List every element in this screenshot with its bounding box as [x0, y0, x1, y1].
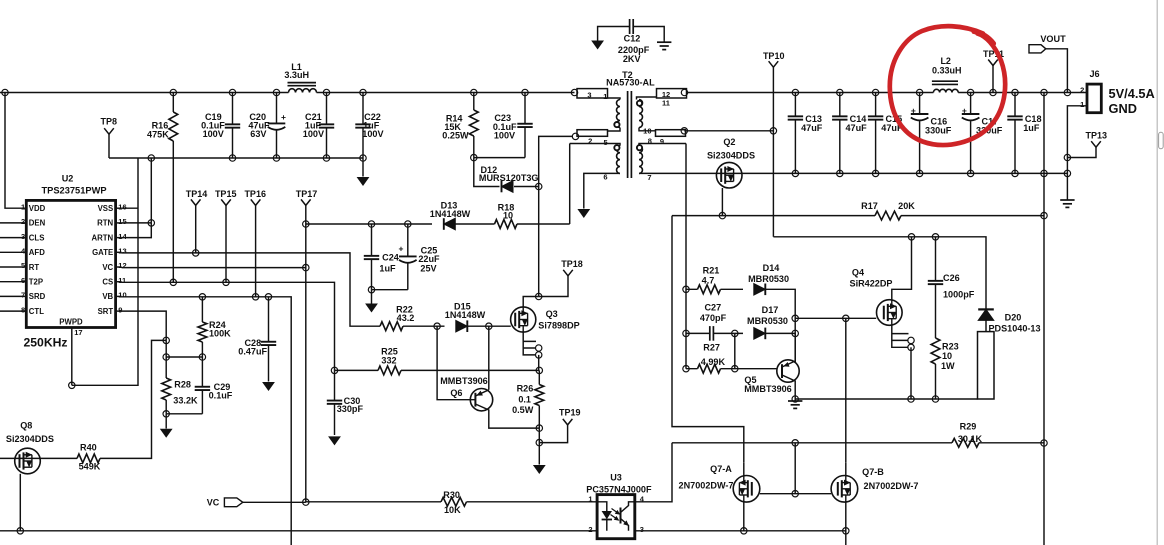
wire TP18 branch: [539, 276, 568, 297]
svg-text:R17: R17: [861, 201, 878, 211]
resistor R21 4.7: [698, 285, 721, 294]
wire top input rail: [0, 92, 575, 94]
wire Q4 source bracket: [892, 325, 909, 347]
node CS / R25 / C30: [331, 367, 337, 373]
wire Q7-B drain: [845, 463, 847, 476]
node PWPD: [69, 382, 75, 388]
wire VSS pin16: [122, 207, 138, 209]
wire Q8 source to bottom rail: [19, 474, 21, 531]
wire R24 bottom tie: [166, 356, 202, 358]
node D15 anode / Q6 base branch: [434, 323, 440, 329]
svg-text:AFD: AFD: [29, 248, 45, 257]
capacitor C17 330uF: [967, 89, 973, 95]
svg-text:R21: R21: [703, 266, 720, 276]
wire R26 to ground: [538, 428, 540, 464]
svg-text:100K: 100K: [209, 328, 231, 338]
ground arrow below C24: [371, 290, 373, 304]
node VB C28: [265, 294, 271, 300]
transformer secondary top winding (12-11): [637, 97, 657, 100]
capacitor C16 330uF: [916, 89, 922, 95]
wire C29 bottom tie: [166, 413, 202, 415]
node Q7-A source rail: [741, 528, 747, 534]
wire snubber bottom row: [795, 398, 977, 400]
svg-text:MMBT3906: MMBT3906: [440, 376, 488, 386]
svg-text:VC: VC: [102, 263, 113, 272]
svg-text:Q8: Q8: [20, 420, 32, 430]
node Q7-B source rail: [843, 528, 849, 534]
svg-text:10: 10: [643, 126, 651, 135]
wire Q5 emitter: [782, 333, 795, 367]
svg-text:11: 11: [118, 276, 126, 285]
svg-text:R26: R26: [517, 383, 534, 393]
node R17 riser top: [1041, 89, 1047, 95]
wire Q2 row right: [716, 172, 795, 174]
node Q5 collector row: [792, 396, 798, 402]
U2 pin 13 GATE: [116, 251, 122, 253]
wire Q7-B drain drop: [845, 318, 847, 463]
wire pin6 to ground: [584, 173, 620, 208]
svg-text:100V: 100V: [362, 129, 383, 139]
wire R25 row: [335, 369, 540, 371]
svg-text:TPS23751PWP: TPS23751PWP: [41, 186, 106, 196]
capacitor C12 2200pF 2KV: [629, 19, 631, 34]
wire Q8 drain to R40: [40, 457, 77, 459]
svg-text:3: 3: [640, 525, 644, 534]
U2 pin 6 T2P: [0, 281, 26, 283]
scrollbar track: [1156, 0, 1158, 545]
wire pin10 row to TP10: [684, 130, 773, 132]
node TP17 on VC bias row: [303, 221, 309, 227]
inductor L1: [288, 82, 317, 84]
scrollbar thumb: [1159, 132, 1164, 148]
resistor R27 4.99K: [698, 364, 721, 373]
svg-text:0.1: 0.1: [518, 394, 531, 404]
svg-text:C27: C27: [704, 303, 721, 313]
U3 phototransistor: [620, 508, 622, 524]
wire C27-R27 tie: [734, 333, 736, 368]
node R24 bottom: [199, 354, 205, 360]
ground arrow below C30: [328, 436, 341, 445]
ground arrow pin6: [577, 209, 590, 218]
transformer primary top winding: [608, 98, 621, 100]
svg-text:1: 1: [21, 202, 25, 211]
wire Q6 base: [437, 326, 475, 400]
U2 pin 5 RT: [0, 266, 26, 268]
svg-text:PDS1040-13: PDS1040-13: [988, 323, 1040, 333]
svg-text:VDD: VDD: [29, 204, 46, 213]
resistor R18 10: [495, 220, 518, 229]
diode D12 MURS120T3G: [502, 181, 514, 193]
wire GATE net: [122, 253, 380, 326]
wire Q7-B source: [845, 502, 847, 545]
svg-text:GND: GND: [1109, 101, 1137, 116]
wire Q2 source: [721, 188, 723, 216]
svg-text:VSS: VSS: [98, 204, 114, 213]
svg-text:0.33uH: 0.33uH: [932, 65, 962, 75]
svg-text:R40: R40: [80, 443, 97, 453]
svg-text:1uF: 1uF: [1023, 123, 1040, 133]
wire Q4 drain: [892, 237, 912, 300]
svg-text:470pF: 470pF: [700, 313, 727, 323]
svg-text:6: 6: [21, 276, 25, 285]
svg-text:NA5730-AL: NA5730-AL: [606, 77, 655, 87]
node snubber rail C26: [932, 234, 938, 240]
svg-text:9: 9: [660, 137, 664, 146]
wire VDD pin1 riser: [5, 93, 26, 209]
resistor R14 15K 0.25W: [473, 93, 475, 111]
capacitor C13 47uF: [792, 89, 798, 95]
node return rail RTN riser: [148, 155, 154, 161]
svg-text:4.7: 4.7: [702, 276, 715, 286]
node TP10 pin10 row: [770, 128, 776, 134]
svg-text:R23: R23: [942, 341, 959, 351]
earth ground output: [1066, 198, 1068, 200]
wire VC bias row: [306, 144, 570, 225]
svg-text:0.1uF: 0.1uF: [209, 390, 233, 400]
transformer aux winding (5-6): [570, 144, 620, 146]
node Q6 emitter on gate row: [486, 323, 492, 329]
U2 pin 8 CTL: [0, 310, 26, 312]
ground arrow C12 left: [591, 41, 604, 50]
node D17 cathode: [792, 330, 798, 336]
svg-text:Q3: Q3: [546, 309, 558, 319]
svg-text:16: 16: [118, 202, 126, 211]
svg-text:MBR0530: MBR0530: [748, 274, 789, 284]
svg-text:1: 1: [603, 92, 607, 101]
svg-text:T2P: T2P: [29, 278, 43, 287]
svg-text:1000pF: 1000pF: [943, 289, 975, 299]
svg-text:33.2K: 33.2K: [173, 396, 198, 406]
svg-text:Q2: Q2: [723, 137, 735, 147]
optocoupler U3 PC357N4J000F body: [597, 495, 635, 539]
svg-text:TP17: TP17: [296, 189, 318, 199]
resistor R17 20K: [875, 211, 901, 220]
wire R14-C23 bottom: [474, 157, 525, 159]
node VB R24: [199, 294, 205, 300]
svg-text:5V/4.5A: 5V/4.5A: [1109, 86, 1155, 101]
node return rail C19: [229, 155, 235, 161]
svg-text:+: +: [911, 105, 916, 115]
node top rail C23: [522, 89, 528, 95]
capacitor C18 1uF: [1012, 89, 1018, 95]
svg-text:1uF: 1uF: [379, 263, 396, 273]
svg-text:Si2304DDS: Si2304DDS: [6, 434, 54, 444]
node Q3 source pin b: [536, 352, 542, 358]
svg-text:10: 10: [503, 211, 513, 221]
svg-text:10K: 10K: [444, 505, 461, 515]
svg-text:1N4148W: 1N4148W: [430, 209, 471, 219]
U2 pin 2 DEN: [0, 222, 26, 224]
node VOUT rail: [1064, 89, 1070, 95]
svg-text:1: 1: [588, 495, 592, 504]
node R26 / TP19: [536, 439, 542, 445]
wire VOUT to rail: [1046, 49, 1068, 93]
wire bottom primary rail: [0, 530, 597, 532]
diode D15 1N4148W: [456, 320, 468, 332]
svg-text:CTL: CTL: [29, 307, 44, 316]
svg-text:TP18: TP18: [561, 259, 583, 269]
wire Q7-A drain: [743, 463, 745, 476]
svg-text:MURS120T3G: MURS120T3G: [479, 173, 539, 183]
node riser R29: [1041, 440, 1047, 446]
svg-text:549K: 549K: [79, 462, 101, 472]
node Q4 source pin a: [908, 337, 914, 343]
node Q4 gate tap: [792, 315, 798, 321]
node R17 right: [1041, 212, 1047, 218]
svg-text:1: 1: [1080, 100, 1084, 109]
svg-text:8: 8: [648, 137, 652, 146]
svg-text:63V: 63V: [250, 129, 266, 139]
svg-text:C24: C24: [382, 253, 400, 263]
resistor R30 10K: [441, 497, 467, 506]
svg-text:3.3uH: 3.3uH: [284, 70, 309, 80]
wire Q3 source bracket: [523, 332, 536, 355]
node Q4 source row: [908, 396, 914, 402]
wire output return rail: [795, 172, 1067, 174]
svg-text:Si2304DDS: Si2304DDS: [707, 150, 755, 160]
svg-text:TP15: TP15: [215, 189, 237, 199]
U2 pin 11 CS: [116, 281, 122, 283]
svg-text:17: 17: [74, 328, 82, 337]
resistor R28 33.2K: [165, 357, 167, 378]
node top rail C20: [273, 89, 279, 95]
svg-text:D14: D14: [763, 263, 781, 273]
svg-text:43.2: 43.2: [397, 313, 415, 323]
transformer core: [627, 91, 629, 178]
svg-text:C26: C26: [943, 273, 960, 283]
svg-text:2: 2: [21, 217, 25, 226]
diode D20 PDS1040-13: [978, 309, 994, 320]
node pin8 R27: [683, 366, 689, 372]
wire RTN pin15 to return rail: [122, 158, 152, 223]
wire PWPD to VSS riser: [72, 158, 138, 385]
svg-text:GATE: GATE: [92, 248, 113, 257]
annotation red circle around L2: [890, 26, 1005, 145]
svg-text:2: 2: [1080, 85, 1084, 94]
wire Q4 source down: [910, 347, 912, 399]
svg-text:R27: R27: [703, 342, 720, 352]
wire Q2 source row / R17 row: [672, 215, 1044, 217]
svg-text:CS: CS: [102, 278, 113, 287]
wire SRT pin9 net: [122, 311, 167, 340]
ground arrow below R26: [533, 465, 546, 474]
svg-text:100V: 100V: [494, 131, 515, 141]
svg-text:R29: R29: [960, 421, 977, 431]
svg-text:U3: U3: [610, 472, 622, 482]
svg-text:VOUT: VOUT: [1040, 34, 1066, 44]
node Q2 source: [719, 212, 725, 218]
node return rail earth: [1064, 170, 1070, 176]
svg-text:13: 13: [118, 247, 126, 256]
svg-text:PC357N4J000F: PC357N4J000F: [586, 484, 652, 494]
node bias row C25: [405, 221, 411, 227]
svg-text:TP13: TP13: [1086, 130, 1108, 140]
svg-text:100V: 100V: [303, 129, 324, 139]
node Q8 source rail: [17, 528, 23, 534]
capacitor C19 0.1uF 100V: [232, 93, 234, 124]
transformer pin10 box: [656, 130, 686, 137]
node rail at pin12: [681, 89, 687, 95]
wire pin7 row (output return): [639, 172, 716, 174]
node pin10 row: [681, 128, 687, 134]
node return rail C22 / ground tap: [360, 155, 366, 161]
transformer pin3 box: [577, 89, 608, 98]
svg-text:Q7-B: Q7-B: [862, 467, 884, 477]
svg-text:CLS: CLS: [29, 233, 45, 242]
svg-text:PWPD: PWPD: [59, 318, 83, 327]
svg-text:J6: J6: [1089, 69, 1099, 79]
transformer secondary lower winding (8-7): [639, 144, 686, 146]
node TP17 on VC flag row: [303, 499, 309, 505]
resistor R24 100K: [201, 297, 203, 322]
wire Q6 collector: [475, 404, 539, 428]
svg-text:2KV: 2KV: [623, 54, 641, 64]
node transformer pin2 connection: [572, 133, 578, 139]
wire C24/C25 bottom tie: [372, 289, 408, 291]
wire J6 pin1: [1067, 106, 1087, 158]
svg-text:10: 10: [118, 291, 126, 300]
phase dot primary top: [614, 122, 619, 127]
node gate riser: [792, 440, 798, 446]
svg-text:SRT: SRT: [98, 307, 114, 316]
node riser on return rail: [1041, 170, 1047, 176]
node TP15 on CS: [223, 279, 229, 285]
node Q3 drain / TP18: [536, 293, 542, 299]
svg-text:7: 7: [21, 291, 25, 300]
svg-text:5: 5: [21, 261, 25, 270]
transistor Q3 Si7898DP: [511, 307, 536, 332]
svg-text:TP16: TP16: [244, 189, 266, 199]
capacitor C28 0.47uF: [268, 297, 270, 342]
svg-text:1W: 1W: [941, 361, 955, 371]
resistor R40 549K: [77, 454, 100, 463]
svg-text:+: +: [281, 112, 286, 122]
wire Q2 source branch down to Q7-A: [672, 216, 744, 463]
svg-text:3: 3: [21, 232, 25, 241]
svg-text:2N7002DW-7: 2N7002DW-7: [679, 481, 734, 491]
node top rail C22: [360, 89, 366, 95]
svg-text:R30: R30: [443, 490, 460, 500]
ground arrow below R28: [165, 414, 167, 429]
wire gate row: [403, 325, 511, 327]
svg-text:330pF: 330pF: [337, 404, 364, 414]
svg-text:475K: 475K: [147, 129, 169, 139]
svg-text:TP19: TP19: [559, 408, 581, 418]
svg-text:+: +: [399, 244, 404, 254]
svg-text:R28: R28: [174, 380, 191, 390]
svg-text:TP8: TP8: [101, 116, 118, 126]
svg-text:20K: 20K: [898, 201, 915, 211]
wire Q4 gate row: [795, 317, 876, 319]
svg-text:DEN: DEN: [29, 219, 46, 228]
node R27 junction: [732, 366, 738, 372]
wire Q3 source down: [538, 355, 540, 371]
wire SRT lower: [165, 340, 167, 357]
capacitor C22 1uF 100V: [362, 93, 364, 124]
wire SRT to R40 riser: [100, 340, 166, 458]
wire TP13 node to return rail and earth: [1066, 158, 1068, 199]
U3 light arrows: [612, 509, 618, 513]
U2 pin 7 SRD: [0, 295, 26, 297]
wire R17/R29 riser: [1043, 93, 1045, 545]
svg-text:Si7898DP: Si7898DP: [538, 321, 579, 331]
svg-text:D20: D20: [1005, 312, 1022, 322]
wire D12 branch: [474, 158, 539, 187]
node Q3 source pin a: [536, 345, 542, 351]
svg-text:2: 2: [588, 525, 592, 534]
U3 LED: [597, 502, 607, 531]
U2 pin 17 PWPD stub: [71, 328, 73, 386]
U2 pin 16 VSS: [116, 207, 122, 209]
wire gate riser: [794, 443, 796, 494]
transformer pin12 box: [657, 89, 687, 98]
earth ground snubber: [794, 399, 796, 401]
inductor L2 0.33uH: [932, 80, 958, 82]
wire VC pin12 net: [122, 267, 306, 269]
node TP14 on GATE: [193, 250, 199, 256]
svg-text:2N7002DW-7: 2N7002DW-7: [864, 481, 919, 491]
wire D20 anode: [985, 320, 987, 331]
wire snubber top rail from TP10: [773, 237, 986, 309]
wire winding to pin2 box: [608, 128, 621, 132]
resistor R29 30.1K: [952, 438, 979, 447]
svg-text:VB: VB: [102, 292, 113, 301]
node R25 / R26 / Q3 source: [536, 367, 542, 373]
diode D13 1N4148W: [444, 218, 456, 230]
node top rail C21: [323, 89, 329, 95]
wire Q7-A source: [743, 502, 745, 531]
transformer pin2 box: [577, 130, 608, 137]
node TP17 on VC pin row: [303, 264, 309, 270]
svg-text:Q4: Q4: [852, 267, 865, 277]
node rail at pin3: [571, 89, 577, 95]
svg-text:25V: 25V: [420, 263, 436, 273]
svg-text:TP14: TP14: [186, 189, 208, 199]
U2 pin 12 VC: [116, 266, 122, 268]
wire return rail (lower): [109, 157, 363, 159]
diode D17 MBR0530: [754, 328, 766, 340]
node R24/R28 tie: [163, 354, 169, 360]
node Q4 source pin b: [908, 344, 914, 350]
phase dot secondary lower: [637, 145, 642, 150]
svg-text:12: 12: [118, 261, 126, 270]
capacitor C27 470pF: [709, 326, 711, 341]
ground arrow below C28: [262, 382, 275, 391]
svg-text:U2: U2: [62, 173, 74, 183]
svg-text:RT: RT: [29, 263, 40, 272]
node top rail C19: [229, 89, 235, 95]
diode D14 MBR0530: [754, 284, 766, 296]
svg-text:SiR422DP: SiR422DP: [850, 278, 893, 288]
node D12 cathode / Q3 drain riser: [536, 183, 542, 189]
node R23 row: [932, 396, 938, 402]
svg-text:+: +: [962, 105, 967, 115]
U2 pin 4 AFD: [0, 251, 26, 253]
D20 package bracket: [978, 332, 995, 399]
wire U3 pin4 riser: [635, 443, 672, 502]
wire secondary winding bottom to pin10 box: [639, 128, 656, 131]
node R26 / Q6 collector: [536, 425, 542, 431]
svg-text:30.1K: 30.1K: [958, 434, 983, 444]
capacitor C29 0.1uF: [201, 357, 203, 386]
capacitor C26 1000pF: [935, 237, 937, 281]
node return rail C21: [323, 155, 329, 161]
svg-text:11: 11: [662, 98, 670, 107]
earth ground C12 right: [663, 40, 665, 42]
svg-text:MBR0530: MBR0530: [747, 316, 788, 326]
phase dot secondary top: [637, 101, 642, 106]
capacitor C25 22uF 25V (polarized): [407, 224, 409, 256]
